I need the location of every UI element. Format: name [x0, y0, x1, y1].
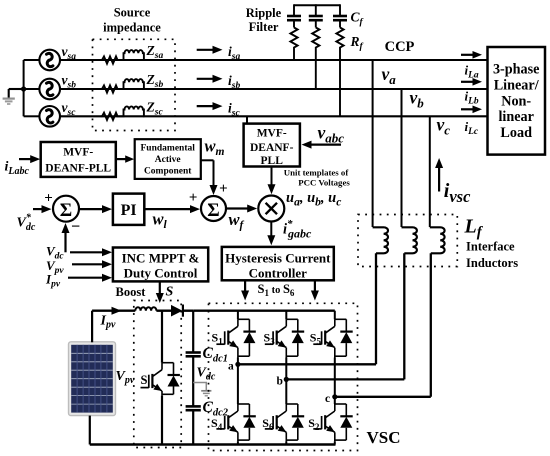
arrow I_pv on dc bus: [112, 307, 122, 315]
wire PV positive to dc bus: [92, 311, 135, 343]
svg-text:DEANF-: DEANF-: [250, 142, 294, 154]
svg-text:VSC: VSC: [367, 428, 401, 447]
wire boost switch leg bottom: [161, 396, 163, 445]
svg-text:Active: Active: [155, 155, 181, 165]
arrow V_pv into INC MPPT: [72, 263, 106, 265]
interface inductors dotted box: [358, 215, 457, 267]
arrow V*_dc into summer 1: [33, 208, 46, 210]
transistor S6 with diode: [265, 404, 304, 441]
load box 3-phase Linear/Non-linear Load: [488, 47, 546, 155]
svg-text:DEANF-PLL: DEANF-PLL: [45, 163, 111, 175]
label Unit templates of PCC Voltages: [284, 168, 351, 188]
resistor R_f branch 1: [290, 28, 297, 53]
inductor L_f phase 3: [430, 227, 445, 253]
wire VSC leg 3 to bottom bus: [334, 441, 336, 444]
inductor of Z_sa: [119, 50, 144, 60]
wire boost inductor to diode: [156, 310, 171, 312]
block MVF-DEANF-PLL (right): [244, 124, 300, 167]
ground: [3, 89, 24, 104]
transistor S1 with diode: [216, 319, 255, 357]
ac source v_sb: [39, 79, 60, 100]
wire tap phase c to inductor Lc: [429, 116, 431, 227]
arrow i_sc: [197, 105, 217, 107]
arrow S gate to boost switch: [159, 281, 161, 297]
svg-text:PLL: PLL: [261, 155, 284, 167]
wire phase c to PLL2: [246, 116, 248, 123]
arrow i_Lb: [461, 81, 476, 83]
boost inductor: [135, 307, 156, 310]
resistor of Z_sb: [101, 85, 120, 92]
svg-text:Component: Component: [144, 167, 192, 177]
wire inductor Lc down to node c: [335, 253, 431, 396]
wire VSC leg 1 middle: [237, 358, 239, 405]
svg-text:−: −: [71, 219, 80, 236]
solar PV panel: [69, 342, 116, 416]
svg-text:Linear/: Linear/: [494, 77, 540, 93]
transistor S2 with diode: [313, 404, 352, 441]
svg-text:3-phase: 3-phase: [493, 62, 540, 78]
svg-text:Hysteresis Current: Hysteresis Current: [225, 251, 331, 266]
svg-text:Load: Load: [500, 125, 532, 141]
capacitor C_f branch 2: [309, 4, 323, 27]
arrow i_Lc: [461, 108, 476, 110]
wire PLL2 to multiplier: [271, 167, 273, 189]
wire inductor La down to node a: [238, 253, 376, 364]
wire dc bus diode to VSC: [193, 310, 335, 312]
wire capacitor chain bottom: [192, 410, 194, 444]
wire tap phase b to inductor Lb: [401, 89, 403, 227]
arrow i_Labc into PLL: [19, 158, 34, 160]
ground dc midpoint: [193, 383, 211, 396]
wire VSC leg 3 middle: [334, 358, 336, 405]
summer 1 (Vdc error): [53, 196, 79, 222]
resistor R_f branch 2: [312, 28, 319, 53]
wire VSC leg 1 from top bus: [237, 311, 239, 320]
svg-text:S: S: [141, 373, 148, 387]
svg-text:+: +: [44, 191, 53, 207]
svg-text:a: a: [228, 361, 234, 373]
svg-text:MVF-: MVF-: [257, 128, 287, 140]
boost converter dotted box: [134, 301, 181, 448]
block INC MPPT & Duty Control: [113, 248, 208, 282]
wire ripple branch 3 to phase: [339, 52, 341, 116]
svg-text:INC MPPT &: INC MPPT &: [122, 251, 200, 266]
node c: [332, 394, 337, 399]
block Fundamental Active Component: [135, 139, 201, 179]
svg-text:Interface: Interface: [466, 240, 515, 254]
wire ripple branch 2 to phase: [315, 52, 317, 89]
svg-text:c: c: [325, 393, 330, 405]
svg-text:linear: linear: [498, 109, 533, 125]
wire VSC leg 1 to bottom bus: [237, 441, 239, 444]
wire left bus connecting sources: [24, 60, 40, 116]
arrow multiplier to hysteresis controller: [270, 222, 272, 240]
svg-text:Inductors: Inductors: [466, 256, 518, 270]
junction dot ground bus: [21, 86, 26, 91]
resistor of Z_sa: [101, 56, 120, 63]
arrow hysteresis to VSC left: [244, 280, 246, 294]
transistor S4 with diode: [216, 404, 255, 441]
VSC dotted box: [209, 303, 358, 450]
block PI: [113, 194, 144, 225]
summer 2: [201, 196, 226, 221]
capacitor C_f branch 1: [287, 4, 301, 27]
svg-text:Controller: Controller: [249, 266, 307, 281]
block MVF-DEANF-PLL (left): [41, 142, 116, 177]
svg-text:Unit templates of: Unit templates of: [284, 168, 350, 178]
arrow i_sa: [197, 49, 217, 51]
arrow summer1 to PI: [79, 208, 106, 210]
wire PV negative to bottom bus: [90, 416, 336, 445]
svg-text:Duty Control: Duty Control: [124, 266, 198, 281]
resistor of Z_sc: [101, 113, 120, 120]
wire between capacitors: [192, 356, 194, 406]
wire phase c line: [60, 115, 488, 117]
svg-text:CCP: CCP: [385, 39, 415, 55]
svg-text:PCC Voltages: PCC Voltages: [298, 178, 350, 188]
wire VSC leg 2 from top bus: [285, 311, 287, 320]
svg-text:PI: PI: [121, 202, 137, 219]
boost diode: [171, 305, 193, 317]
ripple filter top wire: [294, 4, 340, 6]
arrow PI to summer 2: [144, 208, 194, 210]
wire VSC leg 2 middle: [285, 358, 287, 405]
arrow i_La: [461, 54, 476, 56]
wire inductor Lb down to node b: [286, 253, 404, 379]
wire dc-link capacitor chain top: [192, 311, 194, 352]
inductor L_f phase 1: [373, 227, 388, 253]
wire w_m to summer 2: [201, 160, 218, 195]
arrow I_pv into INC MPPT: [68, 277, 106, 279]
svg-text:MVF-: MVF-: [63, 147, 93, 159]
arrow i_vsc: [438, 164, 440, 192]
arrow summer 2 to multiplier: [226, 207, 251, 209]
svg-text:Fundamental: Fundamental: [141, 144, 196, 154]
svg-text:Filter: Filter: [249, 20, 279, 34]
block Hysteresis Current Controller: [222, 247, 334, 281]
svg-text:+: +: [189, 190, 198, 206]
inductor L_f phase 2: [402, 227, 417, 253]
wire VSC leg 2 to bottom bus: [285, 441, 287, 444]
wire tap phase a to inductor La: [372, 60, 374, 227]
svg-text:S1 to S6: S1 to S6: [258, 282, 295, 298]
svg-text:Σ: Σ: [207, 200, 219, 221]
inductor of Z_sb: [119, 79, 144, 89]
capacitor C_f branch 3: [333, 4, 347, 27]
svg-text:Non-: Non-: [501, 93, 531, 109]
resistor R_f branch 3: [336, 28, 343, 53]
transistor S5 with diode: [313, 319, 352, 357]
arrow i_sb: [197, 78, 217, 80]
wire boost switch leg top: [161, 311, 163, 363]
wire ripple branch 1 to phase: [293, 52, 295, 60]
capacitor C_dc2: [186, 406, 201, 410]
source impedance dotted box: [93, 39, 176, 130]
ac source v_sa: [39, 50, 60, 71]
arrow PLL to Fundamental Active Component: [116, 158, 129, 160]
arrow V_dc into INC MPPT: [70, 251, 106, 253]
svg-text:+: +: [219, 181, 228, 197]
transistor S boost switch: [141, 363, 180, 396]
svg-text:Boost: Boost: [116, 285, 147, 299]
capacitor C_dc1: [186, 353, 201, 357]
node b: [284, 377, 289, 382]
svg-text:b: b: [277, 376, 283, 388]
wire VSC leg 3 from top bus: [334, 311, 336, 320]
svg-text:Ripple: Ripple: [246, 6, 282, 20]
wire phase b line: [60, 88, 488, 90]
wire phase a line: [60, 59, 488, 61]
node a: [235, 362, 240, 367]
arrow v_abc into PLL2: [308, 144, 342, 146]
multiplier: [258, 196, 284, 222]
arrow V_dc feedback up to summer 1: [64, 229, 66, 252]
svg-text:S: S: [166, 285, 174, 300]
transistor S3 with diode: [265, 319, 304, 357]
ac source v_sc: [39, 106, 60, 127]
inductor of Z_sc: [119, 106, 144, 116]
arrow hysteresis to VSC right: [314, 280, 316, 294]
svg-text:Source: Source: [114, 5, 151, 19]
svg-text:impedance: impedance: [103, 21, 161, 35]
